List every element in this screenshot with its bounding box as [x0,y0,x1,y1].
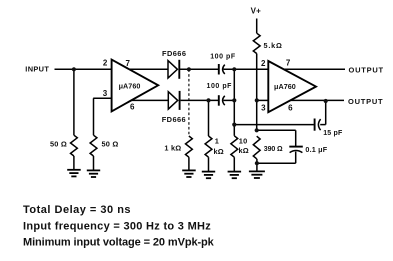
svg-text:50 Ω: 50 Ω [102,139,119,148]
svg-text:6: 6 [288,103,293,112]
svg-text:2: 2 [261,59,266,68]
svg-text:FD666: FD666 [162,49,186,58]
svg-text:Total Delay = 30 ns: Total Delay = 30 ns [23,204,131,216]
svg-text:1: 1 [215,137,219,146]
svg-text:kΩ: kΩ [239,146,249,155]
svg-text:OUTPUT: OUTPUT [349,65,384,74]
svg-text:V+: V+ [251,6,262,15]
svg-text:2: 2 [103,59,108,68]
svg-text:7: 7 [125,59,130,68]
svg-text:5.kΩ: 5.kΩ [264,41,283,50]
svg-text:7: 7 [286,59,291,68]
svg-text:390 Ω: 390 Ω [264,146,283,153]
svg-text:Input frequency = 300 Hz to 3: Input frequency = 300 Hz to 3 MHz [23,220,211,232]
svg-text:6: 6 [130,103,135,112]
svg-text:INPUT: INPUT [25,64,49,73]
svg-text:μA760: μA760 [119,82,141,91]
svg-text:3: 3 [261,104,266,113]
svg-text:FD666: FD666 [162,115,186,124]
svg-text:kΩ: kΩ [214,147,224,156]
svg-text:3: 3 [103,89,108,98]
svg-text:50 Ω: 50 Ω [50,139,67,148]
svg-text:0.1 μF: 0.1 μF [305,145,327,154]
svg-text:μA760: μA760 [274,82,296,91]
svg-text:100 pF: 100 pF [210,53,236,60]
svg-text:Minimum input voltage = 20 mVp: Minimum input voltage = 20 mVpk-pk [23,236,215,248]
svg-text:100 pF: 100 pF [207,83,233,90]
svg-text:1 kΩ: 1 kΩ [164,143,181,152]
svg-text:OUTPUT: OUTPUT [348,97,383,106]
svg-text:15 pF: 15 pF [323,130,343,137]
svg-text:10: 10 [239,137,248,146]
